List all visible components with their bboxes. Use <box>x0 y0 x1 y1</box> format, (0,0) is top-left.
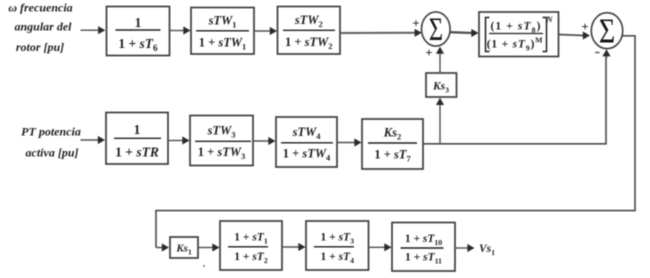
wire: PT input arrow <box>81 136 106 144</box>
svg-text:sTW3: sTW3 <box>207 124 236 140</box>
output label Vs1 <box>479 243 495 257</box>
block 1/(1+sT6) <box>107 7 170 56</box>
svg-text:1 + sTR: 1 + sTR <box>115 145 159 160</box>
summing junction S1 <box>422 11 451 47</box>
input label: omega frecuencia angular del rotor [pu] <box>8 1 72 55</box>
stray comma mark <box>203 258 206 269</box>
summing junction S2 <box>591 11 622 50</box>
wire: lead-lag 2 to lead-lag 3 <box>369 243 392 251</box>
plus sign: S1 bottom input <box>425 45 432 60</box>
svg-text:PT potencia: PT potencia <box>21 125 81 139</box>
block Ks2/(1+sT7) <box>362 119 423 169</box>
svg-text:1 + sTW4: 1 + sTW4 <box>283 147 331 163</box>
block Ks1 <box>170 237 198 258</box>
svg-text:activa [pu]: activa [pu] <box>26 146 79 160</box>
svg-text:(1 + sT9)M: (1 + sT9)M <box>487 36 544 53</box>
block sTW2/(1+sTW2) <box>278 7 341 55</box>
svg-text:angular del: angular del <box>14 20 72 34</box>
minus sign: S2 bottom input <box>595 52 600 54</box>
wire: sTW3 to sTW4 <box>253 137 276 145</box>
svg-text:1 + sT3: 1 + sT3 <box>321 232 355 246</box>
wire: ramp block to summer S2 <box>559 31 591 39</box>
block (1+sT1)/(1+sT2) <box>220 221 282 270</box>
block [(1+sT8)/(1+sT9)^M]^N <box>479 12 559 57</box>
svg-text:N: N <box>545 14 553 24</box>
svg-text:+: + <box>412 16 419 31</box>
svg-text:+: + <box>581 19 588 34</box>
svg-text:+: + <box>425 45 432 60</box>
wire: sTW4 to Ks2 block <box>337 138 362 146</box>
wire: S1 to ramp-tracking block <box>450 29 479 37</box>
wire: Ks2 output run to S2 riser <box>423 57 606 144</box>
wire: block3 to summer S1 <box>341 29 422 37</box>
svg-text:1: 1 <box>134 122 141 137</box>
wire: omega input arrow <box>81 26 106 34</box>
svg-text:1 + sT1: 1 + sT1 <box>234 232 268 246</box>
wire: output arrow to Vs1 <box>455 244 475 252</box>
svg-text:1 + sTW1: 1 + sTW1 <box>199 36 247 52</box>
wire: S2 output down and around to Ks1 <box>156 36 635 252</box>
svg-text:1 + sTW3: 1 + sTW3 <box>198 145 246 161</box>
block (1+sT10)/(1+sT11) <box>392 223 455 272</box>
plus sign: S2 left input <box>581 19 588 34</box>
wire: Ks1 to lead-lag 1 <box>198 243 220 251</box>
wire: riser arrow into S2 bottom <box>602 49 610 58</box>
svg-text:Σ: Σ <box>599 11 615 50</box>
svg-text:1 + sT7: 1 + sT7 <box>374 148 411 164</box>
block sTW1/(1+sTW1) <box>191 8 254 55</box>
svg-text:sTW1: sTW1 <box>208 14 237 30</box>
block Ks3 <box>426 73 457 97</box>
input label: PT potencia activa [pu] <box>21 125 81 160</box>
plus sign: S1 left input <box>412 16 419 31</box>
wire: TR block to sTW3 block <box>168 136 190 144</box>
svg-text:sTW2: sTW2 <box>294 13 323 29</box>
svg-text:Σ: Σ <box>429 11 443 47</box>
svg-text:1 + sT6: 1 + sT6 <box>118 36 158 53</box>
block sTW3/(1+sTW3) <box>190 116 253 166</box>
block (1+sT3)/(1+sT4) <box>306 221 369 270</box>
wire: Ks3 up to S1 <box>436 47 444 73</box>
svg-text:1 + sT2: 1 + sT2 <box>234 251 268 265</box>
svg-text:1: 1 <box>135 15 142 30</box>
svg-text:rotor [pu]: rotor [pu] <box>16 40 64 54</box>
block 1/(1+sTR) <box>106 113 168 165</box>
svg-text:1 + sTW2: 1 + sTW2 <box>285 35 333 51</box>
wire: block2 to block3 <box>254 27 277 35</box>
block sTW4/(1+sTW4) <box>276 117 337 167</box>
wire: block1 to block2 <box>170 26 191 34</box>
wire: lead-lag 1 to lead-lag 2 <box>282 243 306 251</box>
svg-text:ω frecuencia: ω frecuencia <box>8 1 72 15</box>
svg-text:1 + sT4: 1 + sT4 <box>321 251 355 265</box>
svg-text:,: , <box>203 258 206 269</box>
wire: middle row branch up to Ks3 <box>436 98 444 144</box>
